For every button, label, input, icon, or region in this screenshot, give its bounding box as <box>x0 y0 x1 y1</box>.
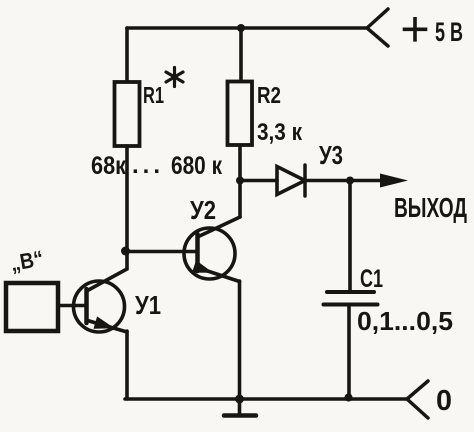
connector +5V chevron <box>367 9 388 46</box>
svg-text:У1: У1 <box>135 290 161 320</box>
connector 0 chevron <box>407 381 428 418</box>
svg-text:У3: У3 <box>319 140 343 170</box>
wire to Y2 base <box>126 250 198 254</box>
wire R1 top branch <box>125 28 129 82</box>
transistor Y1 <box>74 249 128 399</box>
svg-text:0,1...0,5: 0,1...0,5 <box>357 306 453 336</box>
transistor Y2 <box>184 217 240 399</box>
resistor R1 <box>115 82 140 146</box>
node A: R1 / Y1 collector / Y2 base junction <box>121 247 130 256</box>
ground <box>224 399 256 416</box>
capacitor C1 <box>324 292 378 305</box>
svg-text:5 В: 5 В <box>435 17 463 47</box>
svg-text:R2: R2 <box>257 82 281 108</box>
wire box to Y1 base <box>58 304 85 308</box>
label asterisk <box>166 68 183 87</box>
resistor R2 <box>228 82 253 146</box>
node top: junction dot on rail <box>237 24 245 32</box>
node C: output / C1 junction <box>346 177 354 185</box>
label 68к ... 680к <box>91 152 222 180</box>
svg-text:ВЫХОД: ВЫХОД <box>394 192 467 223</box>
wire R1 bottom <box>125 146 129 249</box>
svg-text:R1: R1 <box>143 82 164 108</box>
svg-text:...: ... <box>132 152 164 179</box>
label +5В <box>403 17 463 47</box>
svg-text:680 к: 680 к <box>171 152 222 180</box>
output arrow <box>380 174 408 188</box>
svg-text:3,3 к: 3,3 к <box>257 119 303 146</box>
svg-text:С1: С1 <box>360 265 383 293</box>
wire bottom rail <box>125 397 407 401</box>
wire top rail <box>127 26 367 30</box>
svg-text:У2: У2 <box>190 195 216 225</box>
node B: collector / diode junction <box>236 177 244 185</box>
node D: emitter ground junction <box>235 395 244 404</box>
wire R2 top branch <box>239 28 243 81</box>
wire to diode <box>240 179 277 183</box>
diode У3 <box>277 165 305 196</box>
svg-text:68к: 68к <box>91 152 126 180</box>
svg-text:0: 0 <box>436 385 452 417</box>
wire C1 bottom <box>347 305 351 397</box>
wire diode to output <box>305 179 381 183</box>
wire R2 bottom to Y2 collector <box>238 145 242 217</box>
node E: C1 bottom junction <box>345 394 353 402</box>
wire C1 top <box>348 181 352 292</box>
input box „В" <box>6 283 58 331</box>
